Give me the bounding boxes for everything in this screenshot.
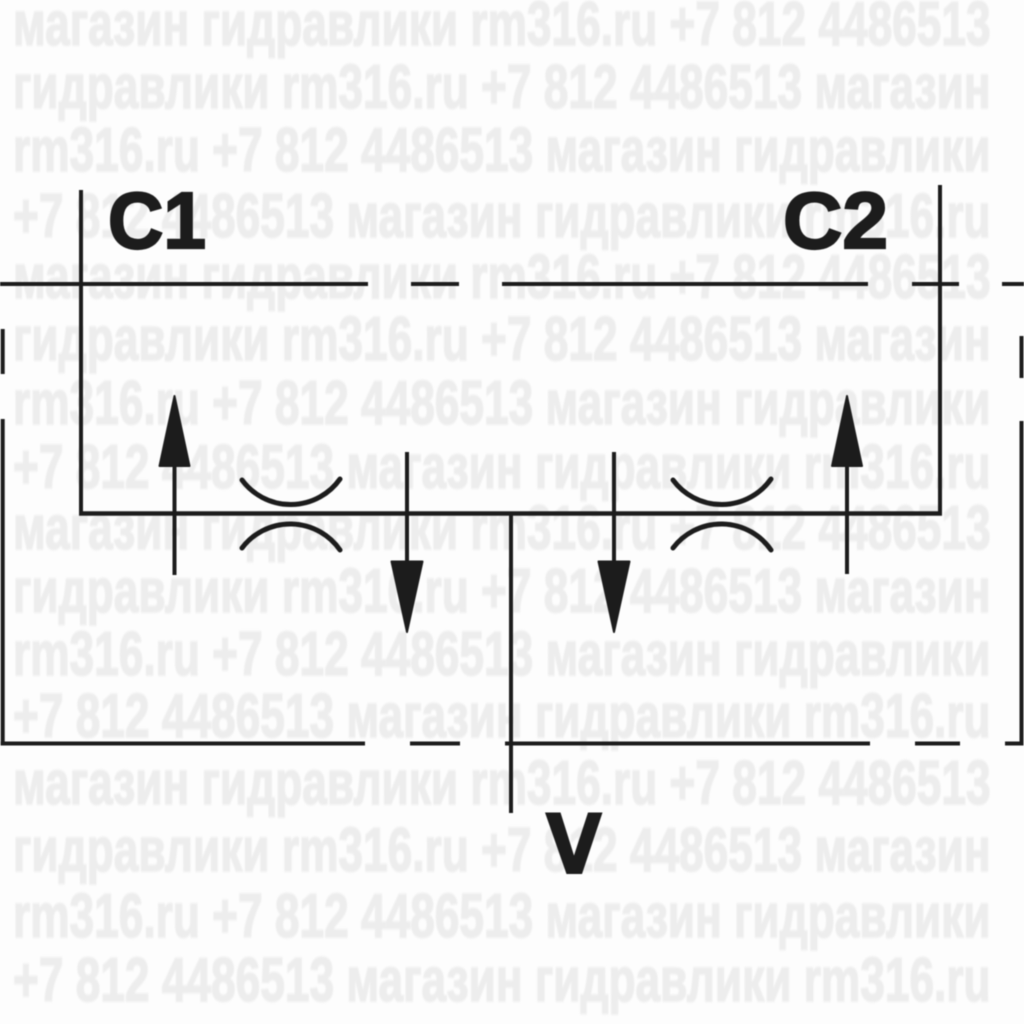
port label V	[545, 813, 603, 875]
watermark rows	[13, 0, 991, 56]
arrow down-mid-left (flow from C1 to V)	[392, 452, 423, 632]
arrow up-left (flow to C1)	[160, 396, 190, 575]
arrow up-right (flow to C2)	[832, 396, 862, 574]
orifice left	[242, 479, 340, 550]
wire main horizontal	[79, 511, 942, 516]
enclosure right border	[1020, 336, 1024, 746]
svg-text:C1: C1	[108, 176, 206, 265]
enclosure left border	[1, 329, 5, 746]
wire C1 vertical	[79, 190, 83, 513]
svg-text:C2: C2	[783, 176, 888, 265]
arrow down-mid-right (flow from C2 to V)	[599, 452, 630, 632]
enclosure top border (dash-dot)	[0, 282, 1024, 286]
enclosure bottom border	[1, 742, 1024, 746]
orifice right	[673, 479, 771, 550]
wire C2 vertical	[938, 185, 942, 513]
wire V vertical	[509, 513, 513, 813]
